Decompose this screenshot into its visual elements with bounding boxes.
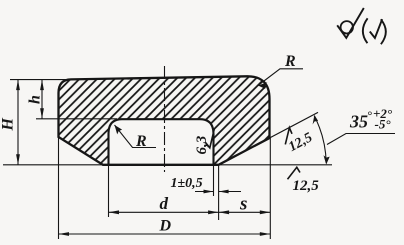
- dimension d line: [109, 211, 219, 213]
- slope extension line (thin): [270, 112, 319, 138]
- parenthesized check symbol: [363, 18, 368, 43]
- angle arc: [314, 116, 326, 163]
- svg-text:12,5: 12,5: [293, 178, 320, 194]
- svg-text:-5°: -5°: [375, 117, 392, 132]
- svg-text:1±0,5: 1±0,5: [171, 176, 203, 191]
- svg-text:s: s: [239, 194, 247, 215]
- top extension line: [10, 79, 66, 81]
- extension line slope foot: [218, 165, 220, 220]
- dimension 1±0,5: [195, 191, 214, 193]
- hatching (section area between outer profile and groove): [59, 76, 270, 165]
- roughness 6,3 mark: [206, 129, 215, 148]
- extension line d left: [108, 165, 110, 217]
- extension line right edge: [269, 138, 271, 239]
- h extension line: [36, 118, 117, 120]
- surface finish symbol with circle: [337, 8, 364, 38]
- svg-text:h: h: [27, 95, 44, 104]
- center line: [164, 66, 166, 172]
- svg-text:H: H: [0, 118, 17, 132]
- roughness 12,5 bottom: [288, 167, 301, 179]
- dimension D line: [59, 233, 271, 235]
- extension line groove right: [213, 165, 215, 196]
- angle leader line: [327, 134, 395, 145]
- dimension s line: [219, 211, 271, 213]
- svg-text:d: d: [160, 194, 169, 213]
- roughness 12,5 on slope: [285, 128, 292, 145]
- extension line D left: [58, 137, 60, 239]
- svg-text:6,3: 6,3: [194, 135, 210, 154]
- groove (inner cutout) outline: [109, 119, 214, 165]
- outer profile outline: [59, 76, 270, 165]
- svg-text:R: R: [284, 53, 296, 70]
- dimension h line: [41, 80, 43, 119]
- svg-text:D: D: [159, 218, 172, 235]
- dimension H line: [17, 80, 19, 165]
- bottom base line: [3, 164, 332, 166]
- svg-text:°: °: [367, 109, 372, 123]
- svg-text:35: 35: [349, 112, 368, 132]
